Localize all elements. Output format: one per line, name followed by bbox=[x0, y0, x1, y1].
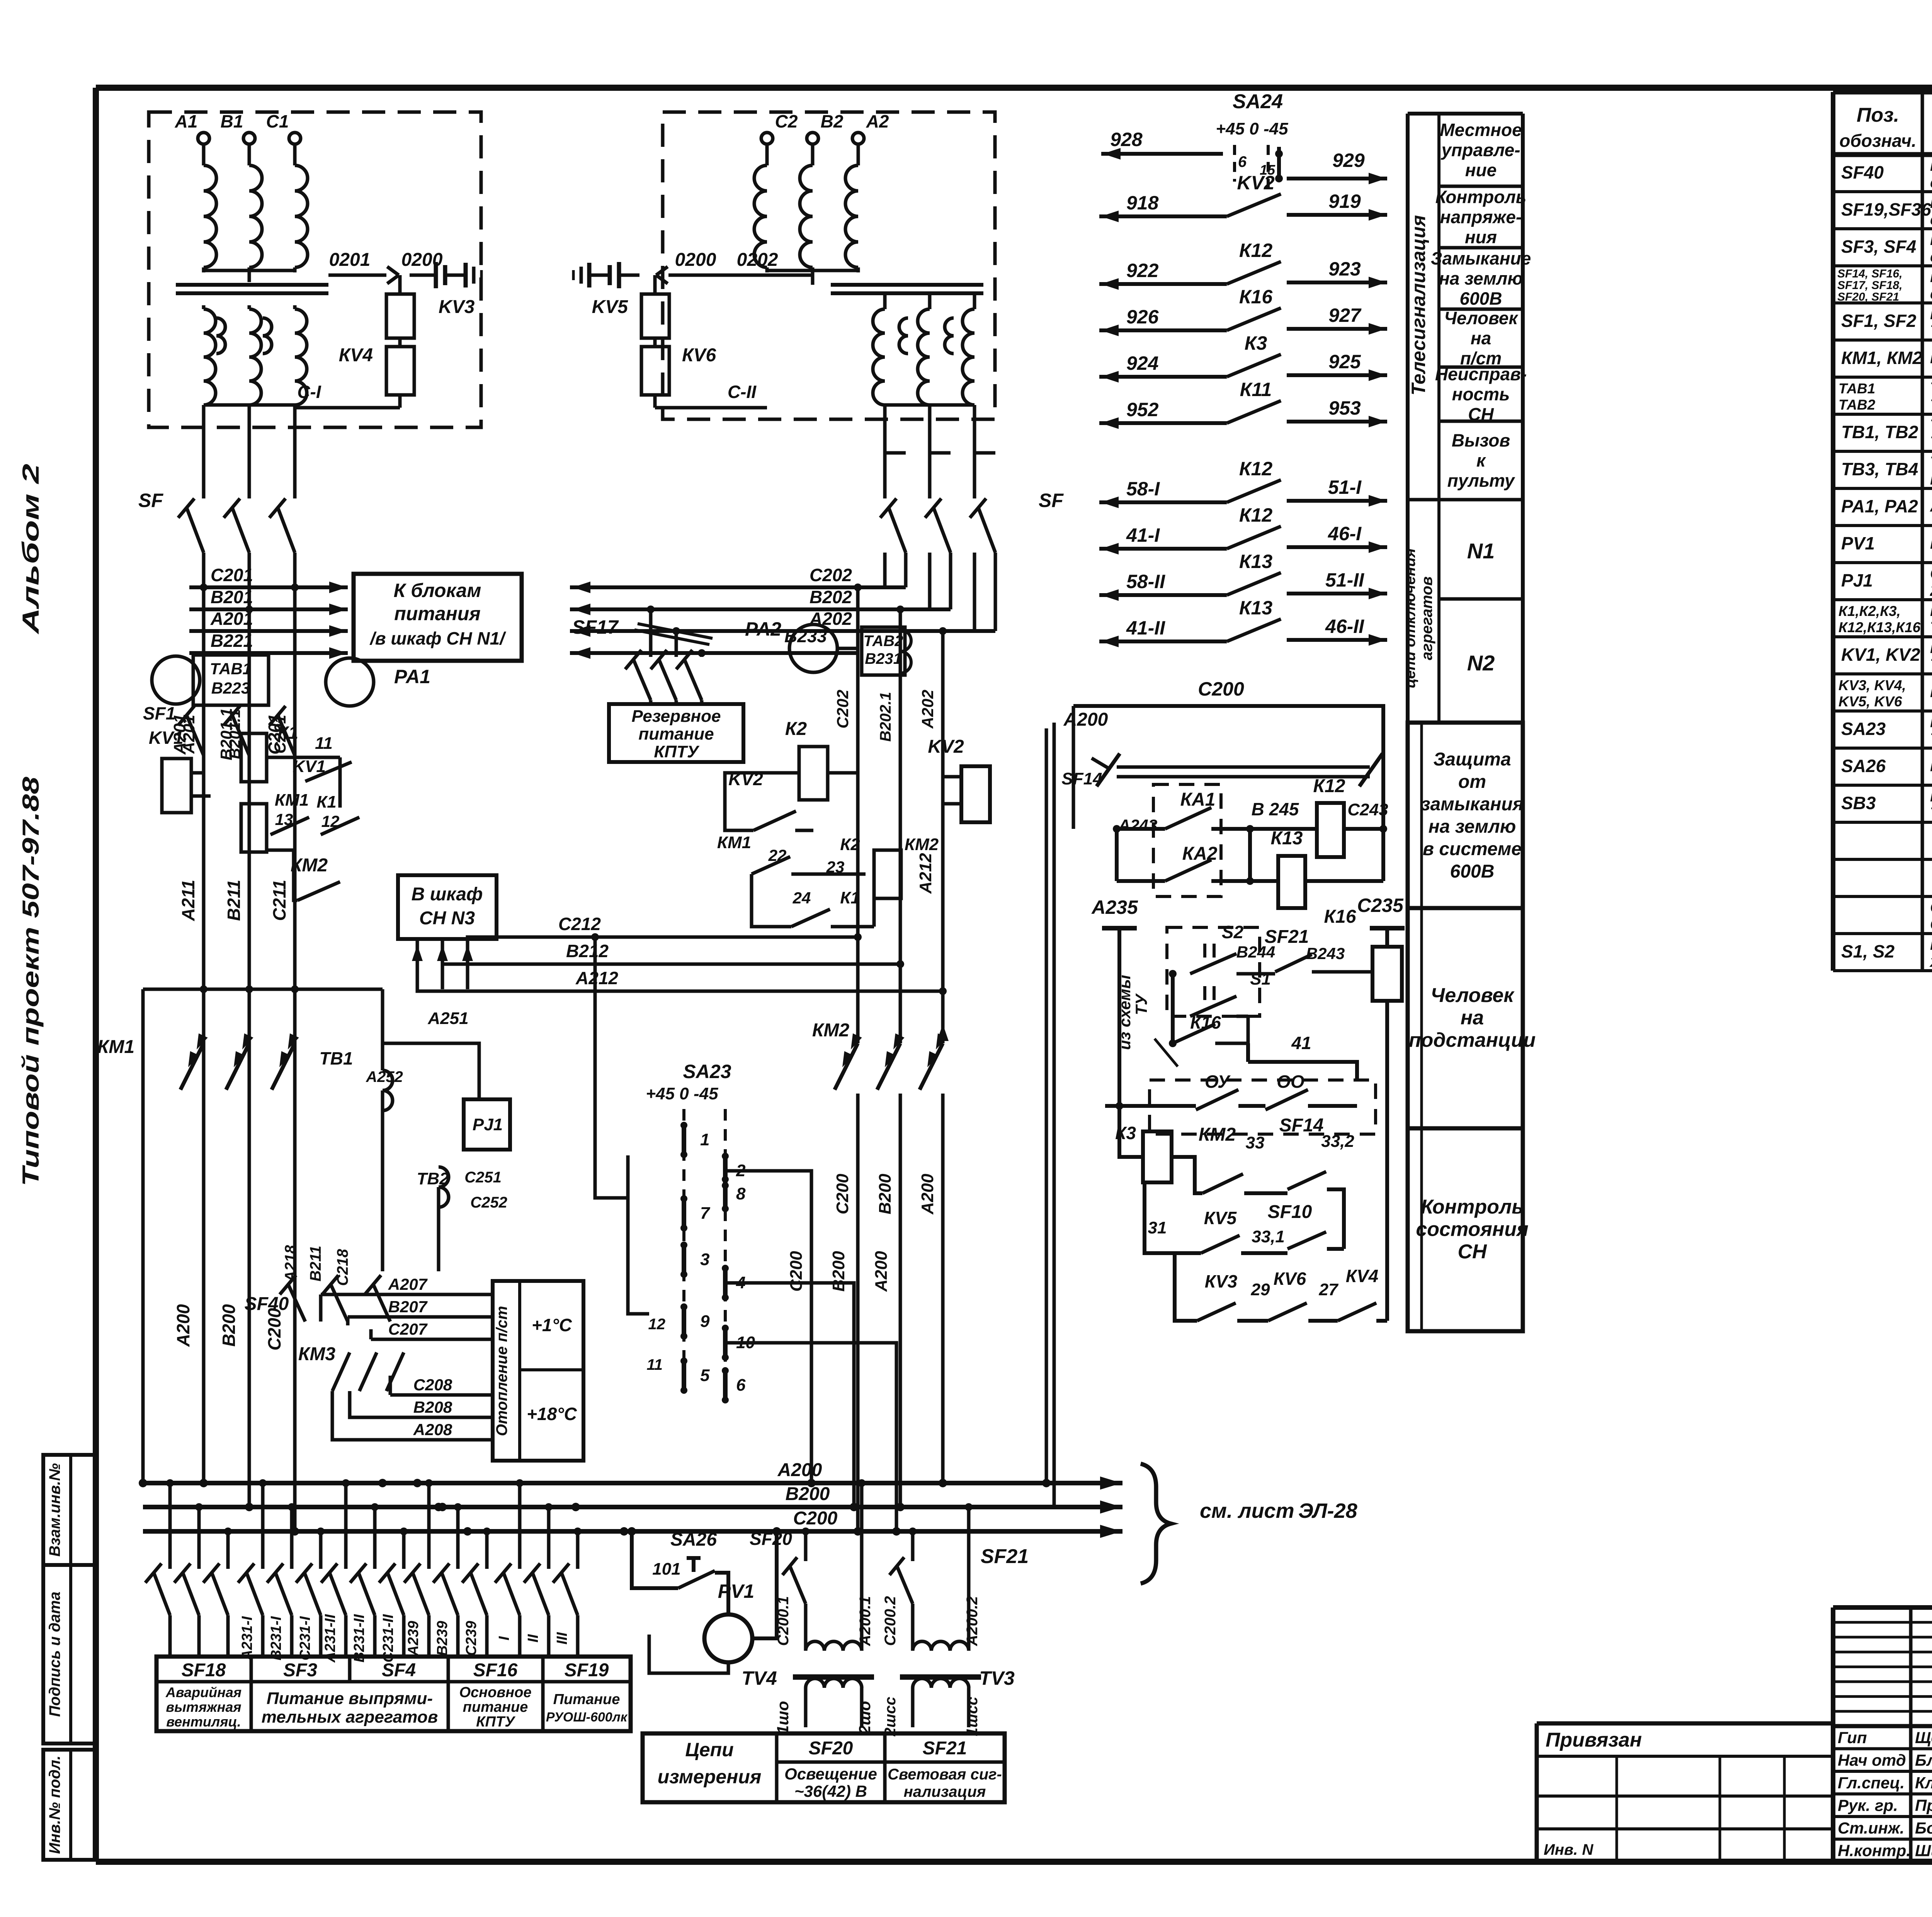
svg-text:SF40: SF40 bbox=[1841, 162, 1884, 182]
svg-text:А1: А1 bbox=[175, 111, 198, 131]
svg-text:33,1: 33,1 bbox=[1252, 1227, 1285, 1246]
svg-text:Неисправ-: Неисправ- bbox=[1435, 364, 1527, 384]
svg-text:ность: ность bbox=[1452, 384, 1510, 404]
svg-text:на землю: на землю bbox=[1439, 269, 1523, 289]
svg-text:КV5: КV5 bbox=[1204, 1208, 1237, 1228]
svg-text:31: 31 bbox=[1148, 1218, 1167, 1237]
svg-text:В207: В207 bbox=[388, 1298, 428, 1316]
svg-text:ТУ16-517. 442-80Е: ТУ16-517. 442-80Е bbox=[1930, 433, 1932, 451]
svg-text:С-I: С-I bbox=[297, 382, 321, 402]
svg-text:SА26: SА26 bbox=[670, 1529, 717, 1550]
svg-text:А212: А212 bbox=[916, 853, 935, 894]
svg-text:КМ1, КМ2: КМ1, КМ2 bbox=[1841, 348, 1922, 368]
svg-text:Шишло: Шишло bbox=[1915, 1842, 1932, 1860]
svg-text:8: 8 bbox=[736, 1184, 746, 1203]
svg-text:В231: В231 bbox=[865, 650, 902, 667]
svg-text:PV1: PV1 bbox=[1841, 533, 1875, 553]
svg-text:Амперметр Э8030, 0÷100/5А ТУ25: Амперметр Э8030, 0÷100/5А ТУ25-04-1907-7… bbox=[1930, 497, 1932, 515]
svg-text:SF1: SF1 bbox=[143, 703, 175, 723]
svg-text:Оборудование, устанавливаемое: Оборудование, устанавливаемое вне шкафа bbox=[1930, 898, 1932, 916]
svg-text:А200: А200 bbox=[872, 1251, 891, 1292]
svg-text:Световая сиг-: Световая сиг- bbox=[888, 1766, 1002, 1783]
svg-text:9: 9 bbox=[700, 1312, 710, 1331]
svg-text:К блокам: К блокам bbox=[394, 580, 481, 601]
svg-text:тельных агрегатов: тельных агрегатов bbox=[262, 1708, 438, 1726]
svg-text:КV6: КV6 bbox=[1274, 1269, 1306, 1289]
svg-text:С2: С2 bbox=[775, 111, 798, 131]
svg-text:Рук. гр.: Рук. гр. bbox=[1838, 1796, 1898, 1815]
svg-text:7: 7 bbox=[700, 1204, 711, 1223]
svg-text:С251: С251 bbox=[464, 1169, 502, 1186]
svg-text:KV3: KV3 bbox=[439, 297, 475, 317]
svg-text:вентиляц.: вентиляц. bbox=[166, 1714, 241, 1730]
svg-text:С218: С218 bbox=[334, 1249, 351, 1286]
svg-text:Инв. N: Инв. N bbox=[1544, 1841, 1594, 1858]
svg-text:101: 101 bbox=[652, 1560, 680, 1579]
svg-text:I: I bbox=[496, 1636, 512, 1640]
svg-text:29: 29 bbox=[1251, 1280, 1270, 1299]
svg-text:SF19: SF19 bbox=[565, 1660, 609, 1681]
svg-text:с/к-2П, Jнр = 10А , 11Jнр ТУ16: с/к-2П, Jнр = 10А , 11Jнр ТУ16-522.066-7… bbox=[1930, 210, 1932, 228]
svg-text:SF20, SF21: SF20, SF21 bbox=[1837, 291, 1899, 303]
svg-text:питание: питание bbox=[463, 1699, 528, 1715]
svg-text:К3: К3 bbox=[1245, 332, 1267, 354]
svg-text:SF10: SF10 bbox=[1268, 1202, 1312, 1222]
svg-text:Выключатель путевой ВПК-2112 У: Выключатель путевой ВПК-2112 УХЛ3, ступе… bbox=[1930, 935, 1932, 953]
svg-text:Счетчик активной энергии СА3У-: Счетчик активной энергии СА3У-И670М bbox=[1930, 564, 1932, 582]
svg-text:Контроль: Контроль bbox=[1435, 187, 1526, 207]
svg-text:S1: S1 bbox=[1250, 970, 1271, 988]
svg-text:/в шкаф СН N1/: /в шкаф СН N1/ bbox=[369, 628, 506, 648]
svg-text:Инв.№ подл.: Инв.№ подл. bbox=[46, 1755, 63, 1854]
svg-text:К13: К13 bbox=[1239, 551, 1273, 572]
svg-text:СН№2 по месту: СН№2 по месту bbox=[1930, 915, 1932, 933]
svg-text:N2: N2 bbox=[1467, 651, 1495, 675]
svg-text:РJ1: РJ1 bbox=[1841, 570, 1873, 590]
svg-text:С200.1: С200.1 bbox=[775, 1596, 792, 1646]
svg-text:на землю: на землю bbox=[1429, 816, 1516, 837]
svg-text:Подпись и дата: Подпись и дата bbox=[46, 1592, 63, 1717]
svg-text:Клячин: Клячин bbox=[1915, 1774, 1932, 1792]
svg-text:KV3, KV4,: KV3, KV4, bbox=[1838, 677, 1906, 693]
svg-text:КМ2: КМ2 bbox=[291, 855, 328, 876]
svg-text:ТВ3, ТВ4: ТВ3, ТВ4 bbox=[1841, 459, 1918, 479]
svg-text:Кнопка КЕ011У3 , исп. 2 толкат: Кнопка КЕ011У3 , исп. 2 толкатель черной bbox=[1930, 787, 1932, 805]
svg-text:состояния: состояния bbox=[1416, 1218, 1528, 1241]
svg-text:24: 24 bbox=[793, 889, 811, 907]
svg-text:SF3, SF4: SF3, SF4 bbox=[1841, 236, 1916, 257]
svg-text:А200: А200 bbox=[918, 1174, 937, 1215]
svg-text:Вызов: Вызов bbox=[1452, 430, 1510, 451]
svg-text:SA23: SA23 bbox=[1841, 719, 1886, 739]
svg-text:KV1: KV1 bbox=[149, 728, 183, 748]
svg-text:Контроль: Контроль bbox=[1421, 1196, 1524, 1218]
svg-text:12: 12 bbox=[648, 1316, 666, 1333]
svg-text:SA26: SA26 bbox=[1841, 756, 1886, 776]
svg-text:SF20: SF20 bbox=[809, 1738, 853, 1759]
svg-text:600В: 600В bbox=[1460, 289, 1502, 309]
svg-text:KV2: KV2 bbox=[1237, 172, 1274, 194]
svg-text:+45 0 -45: +45 0 -45 bbox=[646, 1084, 718, 1103]
svg-text:SF20: SF20 bbox=[750, 1529, 792, 1549]
svg-text:33: 33 bbox=[1246, 1133, 1265, 1152]
svg-text:+18°С: +18°С bbox=[527, 1404, 577, 1424]
svg-text:КПТУ: КПТУ bbox=[476, 1714, 516, 1730]
svg-text:929: 929 bbox=[1332, 150, 1365, 171]
svg-text:SF21: SF21 bbox=[981, 1545, 1029, 1568]
svg-text:К2: К2 bbox=[785, 719, 807, 739]
svg-text:41-II: 41-II bbox=[1126, 617, 1165, 639]
svg-text:С211: С211 bbox=[269, 880, 289, 921]
svg-text:51-II: 51-II bbox=[1325, 569, 1364, 591]
svg-text:S1, S2: S1, S2 bbox=[1841, 941, 1895, 961]
svg-text:С-II: С-II bbox=[728, 382, 757, 402]
svg-text:К12: К12 bbox=[1313, 776, 1345, 796]
svg-text:Трансформатор тока ТК-40, 100/: Трансформатор тока ТК-40, 100/5 bbox=[1930, 379, 1932, 397]
svg-text:924: 924 bbox=[1126, 352, 1158, 374]
svg-text:КV4: КV4 bbox=[1346, 1266, 1379, 1286]
svg-text:KV2: KV2 bbox=[928, 737, 964, 757]
svg-text:Привязан: Привязан bbox=[1546, 1729, 1642, 1751]
svg-text:Реле промежуточное РП-25 УХЛ4,: Реле промежуточное РП-25 УХЛ4,~220В, 50Г… bbox=[1930, 601, 1932, 619]
svg-text:Выключатель автоматический АП5: Выключатель автоматический АП50-3МТУ3,1Р… bbox=[1930, 156, 1932, 174]
svg-text:Поз.: Поз. bbox=[1857, 104, 1899, 126]
svg-text:KV5: KV5 bbox=[592, 297, 629, 317]
svg-text:А212: А212 bbox=[575, 968, 618, 988]
svg-text:6: 6 bbox=[736, 1376, 746, 1395]
svg-text:КV4: КV4 bbox=[339, 345, 373, 366]
svg-text:41-I: 41-I bbox=[1126, 524, 1160, 546]
svg-text:0201: 0201 bbox=[329, 250, 371, 270]
svg-text:К1: К1 bbox=[277, 723, 298, 743]
svg-text:Телесигнализация: Телесигнализация bbox=[1408, 215, 1429, 396]
svg-text:С202: С202 bbox=[833, 690, 852, 728]
svg-text:Питание выпрями-: Питание выпрями- bbox=[267, 1689, 433, 1708]
svg-text:К12: К12 bbox=[1239, 240, 1273, 261]
svg-text:N1: N1 bbox=[1467, 539, 1495, 563]
svg-text:1: 1 bbox=[700, 1130, 709, 1149]
svg-text:напряже-: напряже- bbox=[1440, 207, 1522, 227]
svg-text:PV1: PV1 bbox=[718, 1580, 755, 1602]
svg-text:6: 6 bbox=[1238, 153, 1247, 170]
svg-text:А207: А207 bbox=[388, 1275, 428, 1293]
svg-text:919: 919 bbox=[1328, 191, 1361, 212]
svg-text:на: на bbox=[1471, 328, 1491, 348]
svg-text:+1°С: +1°С bbox=[532, 1315, 572, 1335]
svg-text:А239: А239 bbox=[405, 1621, 422, 1657]
svg-text:ОУ: ОУ bbox=[1205, 1072, 1231, 1092]
svg-text:ТУ16-517.442-80Е: ТУ16-517.442-80Е bbox=[1930, 396, 1932, 414]
svg-text:с/к-2П, Jнр = 2,5А , 11Jнр ТУ1: с/к-2П, Jнр = 2,5А , 11Jнр ТУ16-522.066-… bbox=[1930, 247, 1932, 265]
svg-text:на: на bbox=[1461, 1007, 1484, 1029]
svg-text:В231-I: В231-I bbox=[268, 1616, 284, 1660]
svg-text:В201: В201 bbox=[211, 587, 253, 607]
svg-text:2шо: 2шо bbox=[855, 1701, 874, 1735]
svg-text:вытяжная: вытяжная bbox=[166, 1699, 241, 1715]
svg-text:51-I: 51-I bbox=[1328, 476, 1362, 498]
svg-text:замыкания: замыкания bbox=[1421, 794, 1524, 815]
svg-text:SF40: SF40 bbox=[245, 1294, 289, 1314]
svg-text:Выключатель автоматический АП5: Выключатель автоматический АП50-3МТУ3, 1… bbox=[1930, 193, 1932, 211]
svg-text:ТАВ1: ТАВ1 bbox=[1838, 381, 1875, 396]
svg-text:С200.2: С200.2 bbox=[882, 1596, 899, 1646]
svg-text:С252: С252 bbox=[470, 1194, 507, 1211]
svg-text:В200: В200 bbox=[829, 1251, 848, 1292]
svg-text:В шкаф: В шкаф bbox=[412, 884, 483, 905]
svg-text:Цепи: Цепи bbox=[685, 1739, 733, 1761]
svg-text:С200: С200 bbox=[787, 1251, 806, 1292]
svg-text:1шсс: 1шсс bbox=[964, 1697, 981, 1736]
svg-text:К1,К2,К3,: К1,К2,К3, bbox=[1838, 603, 1901, 619]
svg-text:ТУ16-523.575 - 79: ТУ16-523.575 - 79 bbox=[1930, 655, 1932, 674]
svg-text:SF14: SF14 bbox=[1061, 769, 1102, 788]
svg-text:ТV3: ТV3 bbox=[979, 1667, 1015, 1689]
svg-text:928: 928 bbox=[1110, 129, 1143, 150]
svg-text:РА2: РА2 bbox=[745, 618, 781, 640]
svg-text:SF: SF bbox=[1039, 490, 1064, 511]
svg-text:ход „вправо” ТУ16-526.476-80: ход „вправо” ТУ16-526.476-80 bbox=[1929, 952, 1932, 970]
svg-text:КА2: КА2 bbox=[1182, 844, 1218, 864]
svg-text:Альбом 2: Альбом 2 bbox=[18, 464, 44, 635]
svg-text:СН: СН bbox=[1458, 1241, 1487, 1263]
svg-text:К12,К13,К16: К12,К13,К16 bbox=[1838, 619, 1921, 635]
svg-text:Гл.спец.: Гл.спец. bbox=[1838, 1774, 1905, 1792]
svg-text:Контактор КТ6013-01У3, ~220В Т: Контактор КТ6013-01У3, ~220В ТУ16-524.04… bbox=[1930, 349, 1932, 367]
svg-text:927: 927 bbox=[1328, 304, 1362, 326]
svg-text:РУОШ-600лк: РУОШ-600лк bbox=[546, 1710, 628, 1725]
svg-text:925: 925 bbox=[1328, 351, 1361, 373]
svg-text:918: 918 bbox=[1126, 192, 1159, 214]
svg-text:922: 922 bbox=[1126, 260, 1159, 281]
svg-text:С208: С208 bbox=[413, 1376, 452, 1394]
svg-text:А218: А218 bbox=[282, 1245, 299, 1282]
svg-text:В239: В239 bbox=[434, 1621, 451, 1656]
svg-text:Трансформатор тока ТК-40 , 40/: Трансформатор тока ТК-40 , 40/5 bbox=[1930, 416, 1932, 434]
svg-text:600В: 600В bbox=[1450, 861, 1495, 882]
svg-text:нализация: нализация bbox=[904, 1783, 986, 1800]
svg-text:Выключатель автоматический А37: Выключатель автоматический А3716 , 100А bbox=[1930, 304, 1932, 323]
svg-text:ТАВ2: ТАВ2 bbox=[864, 633, 903, 650]
svg-text:В221: В221 bbox=[211, 631, 253, 651]
svg-text:Щетинский: Щетинский bbox=[1915, 1728, 1932, 1747]
svg-text:А231-I: А231-I bbox=[239, 1616, 255, 1661]
svg-text:Переключатель ТП1-2 УСО.360.04: Переключатель ТП1-2 УСО.360.049ТУ bbox=[1930, 757, 1932, 775]
svg-text:953: 953 bbox=[1328, 397, 1361, 419]
svg-text:Нач отд: Нач отд bbox=[1838, 1751, 1906, 1769]
svg-text:В243: В243 bbox=[1306, 944, 1345, 963]
svg-text:В 245: В 245 bbox=[1252, 799, 1299, 819]
svg-text:РА1: РА1 bbox=[394, 666, 430, 687]
svg-text:ние: ние bbox=[1465, 160, 1497, 180]
svg-text:SA24: SA24 bbox=[1233, 90, 1283, 113]
svg-text:220В, 5А , ГОСТ 6570-75: 220В, 5А , ГОСТ 6570-75 bbox=[1930, 581, 1932, 599]
svg-text:КПТУ: КПТУ bbox=[654, 742, 700, 761]
svg-text:К2: К2 bbox=[840, 835, 860, 854]
svg-text:Питание: Питание bbox=[553, 1691, 620, 1708]
svg-text:11: 11 bbox=[315, 734, 333, 753]
svg-text:SB3: SB3 bbox=[1841, 793, 1876, 813]
svg-text:агрегатов: агрегатов bbox=[1418, 577, 1435, 660]
svg-text:В208: В208 bbox=[413, 1398, 452, 1416]
svg-text:Выключатель автоматический АП5: Выключатель автоматический АП50-3МТУ3 , … bbox=[1930, 267, 1932, 286]
svg-text:SF4: SF4 bbox=[382, 1660, 416, 1681]
svg-text:К12: К12 bbox=[1239, 458, 1273, 480]
svg-text:0200: 0200 bbox=[675, 250, 716, 270]
svg-text:Отопление п/ст: Отопление п/ст bbox=[493, 1306, 510, 1436]
svg-text:III: III bbox=[554, 1632, 570, 1645]
svg-text:измерения: измерения bbox=[658, 1766, 762, 1788]
svg-text:KV1, KV2: KV1, KV2 bbox=[1841, 645, 1920, 665]
svg-text:58-II: 58-II bbox=[1126, 571, 1165, 592]
svg-text:46-II: 46-II bbox=[1325, 616, 1364, 637]
svg-text:ТВ1, ТВ2: ТВ1, ТВ2 bbox=[1841, 422, 1918, 442]
svg-text:S2: S2 bbox=[1222, 922, 1244, 942]
svg-text:обознач.: обознач. bbox=[1839, 131, 1916, 151]
svg-text:27: 27 bbox=[1319, 1280, 1339, 1299]
svg-text:см. лист: см. лист bbox=[1200, 1499, 1294, 1522]
svg-text:ТАВ2: ТАВ2 bbox=[1838, 397, 1876, 413]
svg-text:5: 5 bbox=[700, 1366, 710, 1385]
svg-text:С200: С200 bbox=[1198, 678, 1244, 700]
svg-text:В212: В212 bbox=[566, 941, 609, 961]
svg-text:С200: С200 bbox=[793, 1508, 838, 1529]
svg-text:Борисова: Борисова bbox=[1915, 1819, 1932, 1837]
svg-text:Защита: Защита bbox=[1433, 749, 1511, 770]
svg-text:Освещение: Освещение bbox=[784, 1765, 877, 1783]
svg-text:Человек: Человек bbox=[1430, 984, 1515, 1007]
svg-text:ТВ1: ТВ1 bbox=[320, 1048, 353, 1068]
svg-text:С231-I: С231-I bbox=[297, 1616, 313, 1660]
svg-text:подстанции: подстанции bbox=[1409, 1029, 1536, 1051]
svg-text:SF1, SF2: SF1, SF2 bbox=[1841, 311, 1917, 331]
svg-text:к: к bbox=[1476, 451, 1486, 471]
svg-text:от: от bbox=[1458, 772, 1486, 792]
svg-text:+45 0 -45: +45 0 -45 bbox=[1216, 119, 1288, 138]
svg-text:КМ2: КМ2 bbox=[812, 1020, 849, 1041]
svg-text:ТУ16-528.107-79: ТУ16-528.107-79 bbox=[1930, 804, 1932, 822]
svg-text:Гип: Гип bbox=[1838, 1728, 1867, 1747]
svg-text:58-I: 58-I bbox=[1126, 478, 1160, 500]
svg-text:КМ1: КМ1 bbox=[717, 833, 751, 852]
svg-text:ТУ: ТУ bbox=[1132, 993, 1150, 1015]
svg-text:Ст.инж.: Ст.инж. bbox=[1838, 1819, 1904, 1837]
svg-text:ОО: ОО bbox=[1277, 1072, 1304, 1092]
svg-text:КМ3: КМ3 bbox=[298, 1344, 335, 1364]
svg-text:SF: SF bbox=[138, 490, 163, 511]
svg-text:3: 3 bbox=[700, 1250, 709, 1269]
svg-text:В200: В200 bbox=[219, 1304, 239, 1347]
svg-text:В211: В211 bbox=[307, 1246, 324, 1282]
svg-text:II: II bbox=[525, 1634, 541, 1643]
svg-text:с/к-2П, Jнр = 40А , 11Jнр ТУ16: с/к-2П, Jнр = 40А , 11Jнр ТУ16-522.068-7… bbox=[1930, 173, 1932, 191]
svg-text:Блохин: Блохин bbox=[1915, 1751, 1932, 1769]
svg-text:Вольтметр Э365 0÷500/В ТУ25-04: Вольтметр Э365 0÷500/В ТУ25-04-3577-78 bbox=[1930, 534, 1932, 552]
svg-text:А208: А208 bbox=[413, 1420, 452, 1439]
svg-text:В202: В202 bbox=[810, 587, 852, 607]
svg-text:2шсс: 2шсс bbox=[882, 1697, 899, 1737]
svg-text:В200: В200 bbox=[876, 1174, 895, 1214]
svg-text:Аварийная: Аварийная bbox=[165, 1684, 241, 1700]
svg-text:КМ1: КМ1 bbox=[275, 791, 309, 810]
svg-text:SF21: SF21 bbox=[923, 1738, 967, 1759]
svg-text:А200: А200 bbox=[173, 1304, 193, 1347]
svg-text:КМ1: КМ1 bbox=[97, 1037, 134, 1057]
svg-text:46-I: 46-I bbox=[1328, 523, 1362, 544]
svg-text:СН N3: СН N3 bbox=[419, 908, 475, 929]
svg-text:С1: С1 bbox=[266, 111, 289, 131]
svg-text:А211: А211 bbox=[178, 880, 198, 922]
svg-text:А202: А202 bbox=[918, 690, 937, 729]
svg-text:А235: А235 bbox=[1091, 896, 1138, 918]
svg-text:41: 41 bbox=[1291, 1033, 1311, 1053]
svg-text:К16: К16 bbox=[1239, 286, 1273, 308]
svg-text:питания: питания bbox=[394, 603, 481, 624]
svg-text:из схемы: из схемы bbox=[1116, 975, 1134, 1050]
svg-text:Реле напряжения РН-53/200 ТУ16: Реле напряжения РН-53/200 ТУ16-523.500-8… bbox=[1930, 682, 1932, 701]
svg-text:цепи отключения: цепи отключения bbox=[1401, 548, 1418, 688]
svg-text:К16: К16 bbox=[1324, 907, 1356, 927]
svg-text:ТV4: ТV4 bbox=[742, 1667, 777, 1689]
svg-text:Резервное: Резервное bbox=[632, 707, 721, 726]
svg-text:KV5, KV6: KV5, KV6 bbox=[1838, 694, 1902, 709]
svg-text:ГОСТ 16710-76Е: ГОСТ 16710-76Е bbox=[1930, 470, 1932, 488]
svg-text:К11: К11 bbox=[1240, 379, 1272, 400]
svg-text:А200.2: А200.2 bbox=[964, 1596, 981, 1647]
svg-text:управле-: управле- bbox=[1440, 140, 1520, 160]
svg-text:А200: А200 bbox=[1063, 709, 1108, 730]
svg-text:SF21: SF21 bbox=[1265, 927, 1309, 947]
svg-text:Основное: Основное bbox=[459, 1684, 531, 1701]
svg-text:А243: А243 bbox=[1118, 816, 1157, 834]
svg-text:SF16: SF16 bbox=[473, 1660, 518, 1681]
svg-text:в системе: в системе bbox=[1423, 839, 1522, 859]
svg-text:ТУ16-522.028-74: ТУ16-522.028-74 bbox=[1930, 321, 1932, 340]
svg-text:К13: К13 bbox=[1239, 597, 1273, 619]
svg-text:КМ2: КМ2 bbox=[905, 835, 939, 854]
svg-text:ТУ16-523.483-78Е: ТУ16-523.483-78Е bbox=[1930, 618, 1932, 636]
svg-text:~36(42) В: ~36(42) В bbox=[794, 1782, 867, 1800]
svg-text:КV3: КV3 bbox=[1205, 1271, 1238, 1291]
svg-text:SF19,SF36: SF19,SF36 bbox=[1841, 199, 1931, 219]
svg-text:пульту: пульту bbox=[1447, 471, 1515, 491]
svg-text:С202: С202 bbox=[810, 565, 852, 585]
svg-text:РJ1: РJ1 bbox=[473, 1115, 503, 1134]
svg-text:KV1: KV1 bbox=[293, 757, 326, 776]
svg-text:SF14, SF16,: SF14, SF16, bbox=[1837, 267, 1902, 280]
svg-text:А2: А2 bbox=[866, 111, 889, 131]
svg-text:33,2: 33,2 bbox=[1321, 1132, 1354, 1151]
svg-text:С201: С201 bbox=[211, 565, 253, 585]
svg-text:А200.1: А200.1 bbox=[857, 1596, 874, 1647]
svg-text:К13: К13 bbox=[1271, 828, 1303, 849]
svg-text:С200: С200 bbox=[264, 1308, 284, 1351]
svg-text:С235: С235 bbox=[1357, 895, 1404, 916]
svg-text:с/к-2П, Jнр = 4А , 11Jнр ТУ16: с/к-2П, Jнр = 4А , 11Jнр ТУ16-522.066-75 bbox=[1930, 284, 1932, 303]
svg-text:SF17, SF18,: SF17, SF18, bbox=[1837, 279, 1902, 292]
svg-text:В211: В211 bbox=[224, 880, 244, 921]
svg-text:С239: С239 bbox=[463, 1621, 480, 1656]
svg-text:А251: А251 bbox=[427, 1009, 468, 1028]
svg-text:КА1: КА1 bbox=[1180, 789, 1216, 810]
svg-text:К1: К1 bbox=[840, 888, 860, 907]
svg-text:11: 11 bbox=[646, 1356, 663, 1373]
svg-text:Типовой проект 507-97.88: Типовой проект 507-97.88 bbox=[18, 776, 44, 1186]
svg-text:SF3: SF3 bbox=[283, 1660, 317, 1681]
svg-text:0202: 0202 bbox=[737, 250, 778, 270]
svg-text:Взам.инв.№: Взам.инв.№ bbox=[46, 1463, 63, 1556]
svg-text:С212: С212 bbox=[558, 914, 601, 934]
svg-text:Замыкание: Замыкание bbox=[1431, 248, 1531, 269]
